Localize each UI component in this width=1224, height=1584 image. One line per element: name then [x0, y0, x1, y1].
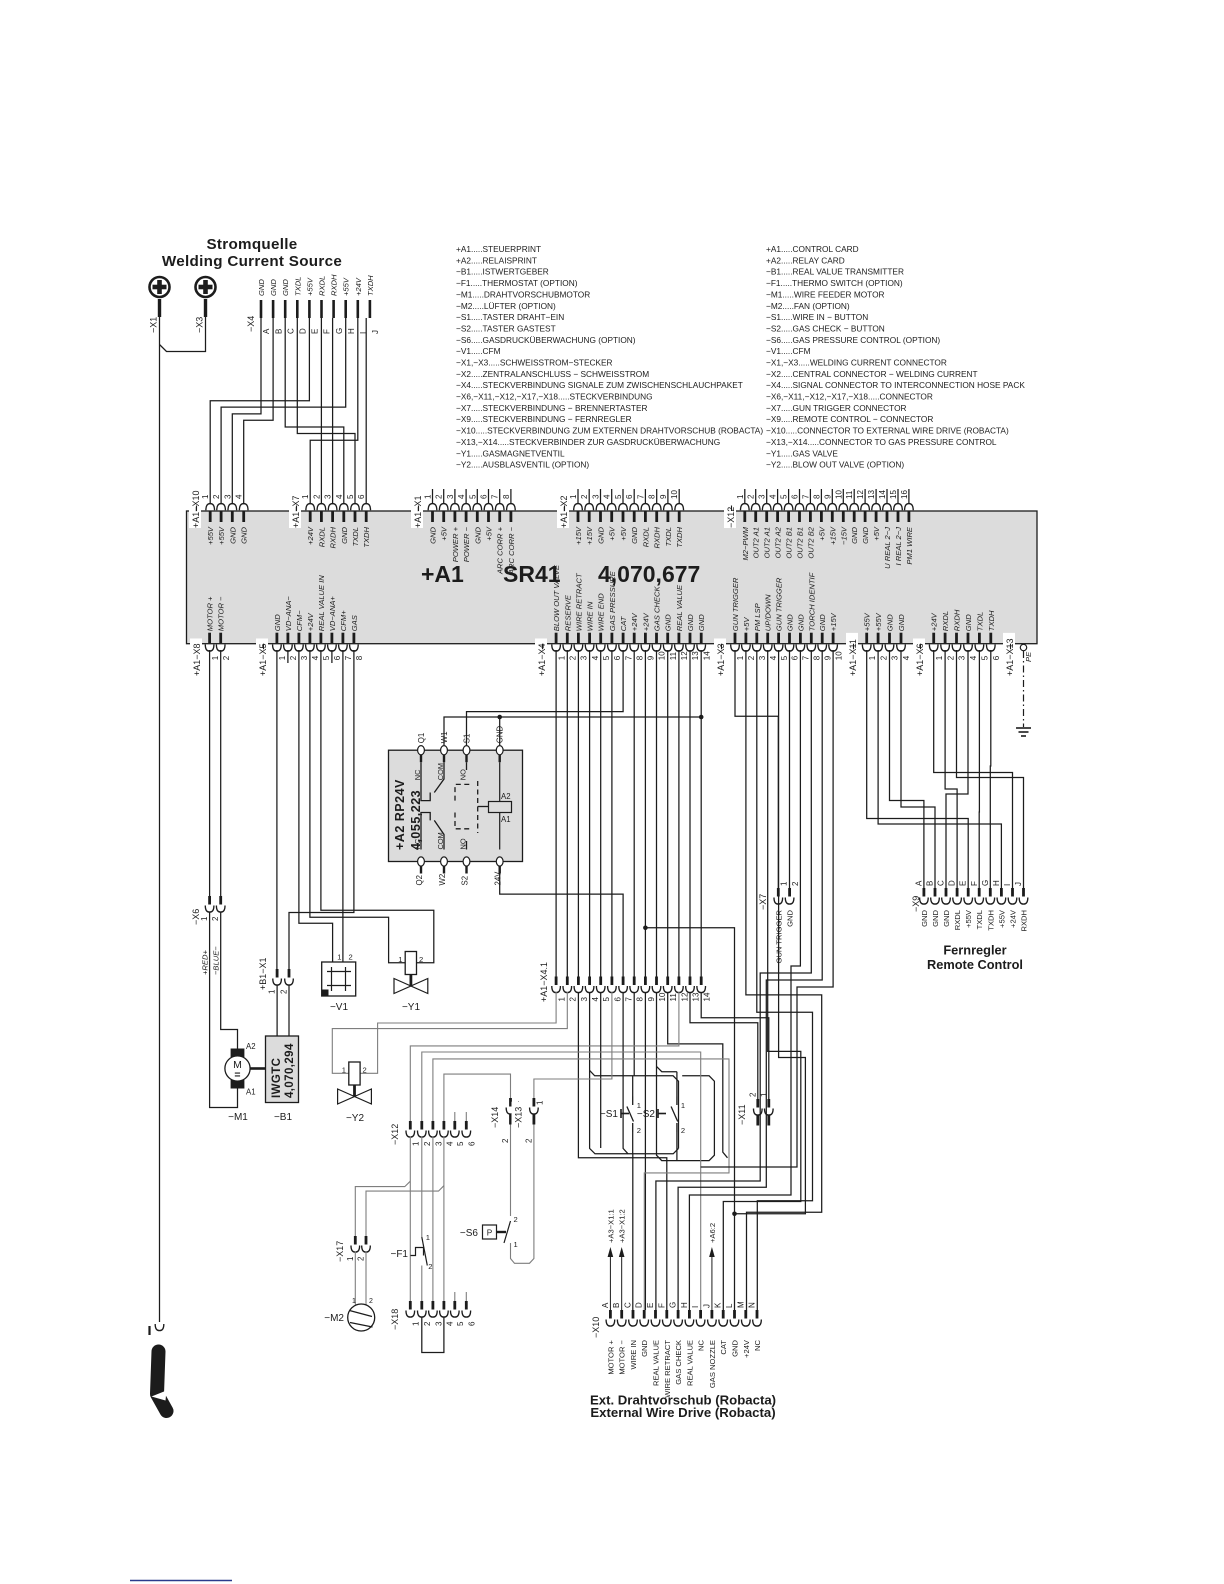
- connector X11 (bottom): [735, 1099, 747, 1125]
- svg-text:GND: GND: [257, 279, 266, 296]
- connector X6 (wire feeder): [189, 904, 201, 925]
- svg-text:2: 2: [637, 1126, 641, 1135]
- svg-text:1: 1: [868, 655, 877, 660]
- svg-text:14: 14: [878, 490, 887, 499]
- svg-text:−Y2.....BLOW OUT VALVE (OPT: −Y2.....BLOW OUT VALVE (OPTION): [766, 460, 904, 470]
- svg-text:14: 14: [703, 992, 712, 1001]
- svg-text:4: 4: [591, 655, 600, 660]
- connector B1-X1: [256, 953, 268, 991]
- X7 pin 1: [777, 888, 780, 897]
- svg-text:−X2.....CENTRAL CONNECTOR −: −X2.....CENTRAL CONNECTOR − WELDING CURR…: [766, 369, 978, 379]
- svg-text:2: 2: [211, 916, 220, 921]
- wire X3-2 wrap to X10-M: [746, 650, 822, 1310]
- svg-text:+A2 RP24V: +A2 RP24V: [393, 779, 407, 850]
- svg-text:3: 3: [223, 494, 232, 499]
- A1-X4.1 pin 1: [555, 977, 558, 986]
- svg-text:NC: NC: [697, 1339, 706, 1350]
- svg-text:−B1: −B1: [274, 1112, 293, 1123]
- A1-X2 pin 3 (GND): [599, 512, 602, 523]
- A1-X2 pin 7 (RXDL): [644, 512, 647, 523]
- X10 pin A (MOTOR +): [609, 1310, 612, 1319]
- X12 pin 8 (+5V): [820, 512, 823, 523]
- svg-text:−X11: −X11: [737, 1104, 747, 1125]
- svg-text:GND: GND: [931, 909, 940, 926]
- A1-X3 pin 8 (TORCH IDENTIF): [810, 633, 813, 644]
- off-page arrows A3-X1: [609, 1253, 611, 1310]
- svg-text:M2−PWM: M2−PWM: [741, 526, 750, 560]
- control card board +A1 SR41: [187, 511, 1038, 644]
- svg-text:RXDL: RXDL: [941, 611, 950, 631]
- A1-X4 pin 6 (GAS PRESSURE): [611, 633, 614, 644]
- A1-X4.1 pin 5: [599, 977, 602, 986]
- svg-text:WIRE IN: WIRE IN: [629, 1340, 638, 1370]
- svg-text:RXDL: RXDL: [953, 910, 962, 930]
- svg-text:C: C: [624, 1302, 633, 1308]
- svg-text:4: 4: [603, 494, 612, 499]
- svg-text:WIRE RETRACT: WIRE RETRACT: [663, 1340, 672, 1398]
- A1-X4.1 pin 11: [666, 977, 669, 986]
- svg-text:3: 3: [758, 494, 767, 499]
- wire X5-3 to CFM V1 pin1: [299, 650, 333, 962]
- svg-text:−V1.....CFM: −V1.....CFM: [766, 346, 811, 356]
- svg-text:Q2: Q2: [415, 875, 424, 885]
- svg-text:F: F: [970, 881, 979, 886]
- A1-X3 pin 10 (+15V): [832, 633, 835, 644]
- remote control crossing wires X11/X6 to X9: [890, 650, 924, 888]
- svg-text:9: 9: [823, 655, 832, 660]
- wire relay S1 to board X4 pin 7: [467, 650, 624, 745]
- wire relay 24V to X4.1 pin 7: [500, 867, 623, 978]
- svg-text:−X1: −X1: [149, 317, 159, 333]
- svg-text:PE: PE: [1024, 651, 1033, 662]
- wire X5-4 to gas valve Y1 pin1: [310, 650, 405, 963]
- svg-text:A: A: [601, 1302, 610, 1308]
- svg-text:CAT: CAT: [719, 1340, 728, 1355]
- svg-text:RXDH: RXDH: [330, 274, 339, 296]
- svg-text:1: 1: [569, 494, 578, 499]
- footer mark: [130, 1580, 232, 1582]
- connector X14: [488, 1102, 500, 1128]
- X9 pin D: [956, 888, 959, 897]
- wire X4.1-10 to S2 rail: [657, 992, 715, 1161]
- X12 pin 5: [453, 1121, 456, 1130]
- svg-text:−S6.....GASDRUCKÜBERWACHUNG (: −S6.....GASDRUCKÜBERWACHUNG (OPTION): [456, 335, 636, 345]
- svg-text:+24V: +24V: [306, 612, 315, 631]
- A1-X2 pin 10 (TXDH): [678, 512, 681, 523]
- svg-text:+5V: +5V: [608, 526, 617, 541]
- svg-text:2: 2: [569, 997, 578, 1002]
- X9 pin E: [967, 888, 970, 897]
- svg-text:1: 1: [426, 1233, 430, 1242]
- svg-text:1: 1: [780, 881, 789, 886]
- wires X4 to A1-X10 / A1-X7: [210, 318, 309, 504]
- svg-text:6: 6: [357, 494, 366, 499]
- svg-text:4: 4: [769, 494, 778, 499]
- svg-text:RXDH: RXDH: [1020, 910, 1029, 932]
- X4 pin H (+55V): [344, 300, 347, 318]
- A1-X4 pin 13 (GND): [689, 633, 692, 644]
- transducer B1 IWGTC 4,070,294: [266, 1036, 299, 1103]
- svg-text:7: 7: [636, 494, 645, 499]
- svg-text:+24V: +24V: [306, 526, 315, 545]
- svg-text:−15V: −15V: [839, 526, 848, 545]
- A1-X6 pin 4 (GND): [967, 633, 970, 644]
- A1-X5 pin 7 (CFM+): [341, 633, 344, 644]
- A1-X1 pin 4 (POWER −): [465, 512, 468, 523]
- svg-text:−X12: −X12: [390, 1124, 400, 1145]
- svg-text:+55V: +55V: [874, 612, 883, 631]
- svg-text:4: 4: [969, 655, 978, 660]
- svg-text:−M2.....LÜFTER (OPTION): −M2.....LÜFTER (OPTION): [456, 301, 556, 311]
- A1-X5 pin 8 (GAS): [352, 633, 355, 644]
- svg-text:GND: GND: [429, 526, 438, 543]
- svg-text:−Y1: −Y1: [402, 1002, 421, 1013]
- svg-text:15: 15: [889, 490, 898, 499]
- svg-text:8: 8: [648, 494, 657, 499]
- svg-text:10: 10: [834, 651, 843, 660]
- svg-text:CFM−: CFM−: [295, 610, 304, 631]
- wire S2 bottom to loop: [676, 1132, 678, 1161]
- svg-text:6: 6: [333, 655, 342, 660]
- svg-text:CAT: CAT: [619, 615, 628, 631]
- svg-text:6: 6: [468, 1141, 477, 1146]
- wire X3-1 to gun trigger connector X7: [735, 650, 778, 888]
- svg-text:GND: GND: [796, 614, 805, 631]
- svg-text:TXDL: TXDL: [293, 277, 302, 296]
- svg-text:7: 7: [801, 494, 810, 499]
- svg-text:G: G: [669, 1302, 678, 1308]
- svg-text:GUN TRIGGER: GUN TRIGGER: [775, 577, 784, 631]
- svg-text:GND: GND: [731, 1339, 740, 1356]
- X18 pin 1: [409, 1301, 412, 1310]
- svg-text:8: 8: [502, 494, 511, 499]
- svg-text:+5V: +5V: [485, 526, 494, 541]
- A1-X5 pin 1 (GND): [275, 633, 278, 644]
- A1-X7 pin 3 (RXDH): [331, 512, 334, 523]
- svg-text:−X17: −X17: [335, 1241, 345, 1262]
- A1-X7 pin 4 (GND): [342, 512, 345, 523]
- svg-text:1: 1: [736, 655, 745, 660]
- X12 pin 3: [431, 1121, 434, 1130]
- X9 pin F: [978, 888, 981, 897]
- svg-text:13: 13: [867, 490, 876, 499]
- X9 pin H: [1000, 888, 1003, 897]
- svg-text:6: 6: [992, 655, 1001, 660]
- X4 pin E (+55V): [308, 300, 311, 318]
- wire X6-2 to motor A2: [221, 912, 238, 1049]
- svg-text:A: A: [262, 328, 271, 334]
- A1-X3 pin 1 (GUN TRIGGER): [734, 633, 737, 644]
- svg-text:F: F: [323, 329, 332, 334]
- svg-text:+5V: +5V: [817, 526, 826, 541]
- svg-text:REAL VALUE: REAL VALUE: [675, 584, 684, 631]
- svg-text:3: 3: [434, 1141, 443, 1146]
- A1-X4.1 pin 8: [633, 977, 636, 986]
- stubs above X18 pins 5,6: [454, 1292, 456, 1301]
- svg-text:=: =: [234, 1069, 240, 1081]
- svg-text:+RED+: +RED+: [201, 950, 210, 975]
- wire X4.1-8 down to S1 rail: [633, 992, 635, 1076]
- wire X3 to X1 joint: [160, 317, 206, 352]
- wire X3-8 to X10-E: [656, 650, 811, 1310]
- relay pin GND (top): [496, 746, 503, 755]
- svg-text:1: 1: [268, 989, 277, 994]
- svg-text:POWER −: POWER −: [462, 526, 471, 562]
- svg-text:−V1.....CFM: −V1.....CFM: [456, 346, 501, 356]
- svg-text:−X13,−X14.....STECKVERBINDER: −X13,−X14.....STECKVERBINDER ZUR GASDRUC…: [456, 437, 720, 447]
- svg-text:6: 6: [468, 1321, 477, 1326]
- A1-X11 pin 3 (GND): [888, 633, 891, 644]
- connector A1-X5: [256, 639, 268, 677]
- svg-text:−X1,−X3.....SCHWEISSTROM−STECK: −X1,−X3.....SCHWEISSTROM−STECKER: [456, 358, 613, 368]
- svg-text:TORCH IDENTIF: TORCH IDENTIF: [807, 572, 816, 631]
- svg-text:3: 3: [324, 494, 333, 499]
- X18 pin 4: [442, 1301, 445, 1310]
- svg-text:+A1.....STEUERPRINT: +A1.....STEUERPRINT: [456, 244, 541, 254]
- svg-text:+55V: +55V: [342, 277, 351, 296]
- svg-text:13: 13: [691, 992, 700, 1001]
- svg-text:+5V: +5V: [440, 526, 449, 541]
- svg-text:3: 3: [300, 655, 309, 660]
- svg-text:D: D: [299, 328, 308, 334]
- wire S1 top horizontal: [632, 1076, 634, 1097]
- relay pin 24V (bottom): [496, 857, 503, 866]
- connector X12 (bottom area): [388, 1119, 400, 1145]
- X12 pin 2: [420, 1121, 423, 1130]
- svg-text:4: 4: [445, 1141, 454, 1146]
- svg-text:+55V: +55V: [305, 277, 314, 296]
- board edge brackets: [196, 506, 198, 512]
- A1-X10 pin 1 (+55V): [209, 512, 212, 523]
- svg-text:3: 3: [958, 655, 967, 660]
- svg-text:−S6.....GAS PRESSURE CONTROL: −S6.....GAS PRESSURE CONTROL (OPTION): [766, 335, 940, 345]
- connector A1-X11: [846, 633, 858, 676]
- svg-text:TXDH: TXDH: [362, 526, 371, 547]
- wire X3-4 to X10-K: [723, 650, 801, 1310]
- X4 pin A (GND): [260, 300, 263, 318]
- svg-text:GND: GND: [886, 614, 895, 631]
- svg-text:B: B: [926, 881, 935, 886]
- A1-X4.1 pin 6: [611, 977, 614, 986]
- wire X3-6 to X7 pin2: [789, 650, 791, 888]
- svg-text:7: 7: [802, 655, 811, 660]
- svg-text:10: 10: [658, 651, 667, 660]
- svg-text:4: 4: [235, 494, 244, 499]
- svg-text:GAS NOZZLE: GAS NOZZLE: [708, 1340, 717, 1388]
- svg-text:MOTOR −: MOTOR −: [217, 596, 226, 631]
- A1-X4.1 pin 2: [566, 977, 569, 986]
- svg-text:8: 8: [813, 655, 822, 660]
- wire X12 pin2 sense line to X10-I: [422, 1052, 701, 1310]
- A1-X5 pin 5 (REAL VALUE IN): [319, 633, 322, 644]
- svg-text:6: 6: [791, 655, 800, 660]
- svg-text:−M2: −M2: [324, 1313, 344, 1324]
- svg-text:+5V: +5V: [742, 617, 751, 632]
- stub X5-2: [287, 650, 289, 663]
- svg-text:2: 2: [212, 494, 221, 499]
- relay pin S2 (bottom): [463, 857, 470, 866]
- svg-text:−X10.....STECKVERBINDUNG ZUM: −X10.....STECKVERBINDUNG ZUM EXTERNEN DR…: [456, 426, 763, 436]
- A1-X4 pin 4 (WIRE IN): [588, 633, 591, 644]
- svg-text:−V1: −V1: [330, 1002, 349, 1013]
- svg-text:8: 8: [355, 655, 364, 660]
- svg-text:7: 7: [491, 494, 500, 499]
- wire X4.1-1 to Y2 pin2: [360, 992, 556, 1073]
- svg-text:12: 12: [856, 490, 865, 499]
- wire X1 to torch socket: [159, 317, 161, 1322]
- wire X4.1-11 GND to S2 loop right: [668, 992, 728, 1158]
- svg-text:GND: GND: [240, 526, 249, 543]
- svg-text:GAS CHECK: GAS CHECK: [653, 586, 662, 632]
- svg-text:+A2.....RELAISPRINT: +A2.....RELAISPRINT: [456, 255, 537, 265]
- X12 pin 10 (−15V): [842, 512, 845, 523]
- A1-X4.1 pin 9: [644, 977, 647, 986]
- svg-text:3: 3: [434, 1321, 443, 1326]
- motor M1 (wire feeder motor): [231, 1049, 245, 1058]
- svg-text:GAS CHECK: GAS CHECK: [674, 1340, 683, 1385]
- svg-text:External Wire Drive (Robacta): External Wire Drive (Robacta): [590, 1405, 775, 1420]
- A1-X2 pin 6 (GND): [633, 512, 636, 523]
- svg-text:GND: GND: [273, 614, 282, 631]
- svg-text:6: 6: [791, 494, 800, 499]
- X12 pin 1 (M2−PWM): [743, 512, 746, 523]
- relay pin W2 (bottom): [441, 857, 448, 866]
- A1-X1 pin 3 (POWER +): [453, 512, 456, 523]
- svg-text:3: 3: [891, 655, 900, 660]
- A1-X11 pin 4 (GND): [900, 633, 903, 644]
- X10 pin E (REAL VALUE): [654, 1310, 657, 1319]
- svg-text:+24V: +24V: [1009, 909, 1018, 928]
- svg-text:2: 2: [747, 494, 756, 499]
- relay pin Q1 (top): [418, 746, 425, 755]
- svg-text:OUT2 A1: OUT2 A1: [763, 527, 772, 558]
- welding current connector X1: [150, 277, 170, 297]
- svg-text:S2: S2: [461, 876, 470, 886]
- torch connector socket: [155, 1324, 164, 1331]
- wire X3-3 wrap to X10-N: [757, 650, 813, 1310]
- wire X12-3 to X10-D GND: [433, 1059, 729, 1310]
- svg-text:OUT2 B1: OUT2 B1: [785, 527, 794, 559]
- svg-text:5: 5: [602, 655, 611, 660]
- svg-text:1: 1: [424, 494, 433, 499]
- X12 pin 5 (OUT2 B1): [787, 512, 790, 523]
- svg-text:U REAL 2−J: U REAL 2−J: [883, 527, 892, 569]
- A1-X10 pin 3 (GND): [231, 512, 234, 523]
- svg-text:RXDH: RXDH: [953, 609, 962, 631]
- A1-X4 pin 5 (WIRE END): [599, 633, 602, 644]
- A1-X3 pin 9 (GND): [821, 633, 824, 644]
- svg-text:+24V: +24V: [354, 277, 363, 296]
- svg-text:−X6,−X11,−X12,−X17,−X18.....CO: −X6,−X11,−X12,−X17,−X18.....CONNECTOR: [766, 392, 933, 402]
- A1-X7 pin 1 (+24V): [309, 512, 312, 523]
- svg-text:GND: GND: [697, 614, 706, 631]
- svg-text:8: 8: [812, 494, 821, 499]
- X12 pin 1: [409, 1121, 412, 1130]
- A1-X6 pin 6 (TXDH): [989, 633, 992, 644]
- svg-text:+A1: +A1: [421, 561, 464, 587]
- svg-text:13: 13: [691, 651, 700, 660]
- svg-text:9: 9: [647, 655, 656, 660]
- svg-text:WIRE RETRACT: WIRE RETRACT: [574, 572, 583, 631]
- svg-text:−X4.....SIGNAL CONNECTOR TO: −X4.....SIGNAL CONNECTOR TO INTERCONNECT…: [766, 380, 1025, 390]
- svg-text:5: 5: [346, 494, 355, 499]
- svg-text:5: 5: [614, 494, 623, 499]
- svg-text:10: 10: [658, 992, 667, 1001]
- svg-text:TXDH: TXDH: [366, 275, 375, 296]
- X10 pin L (GND): [733, 1310, 736, 1319]
- X12 pin 16 (PM1 WIRE): [908, 512, 911, 523]
- welding torch body: [157, 1352, 167, 1412]
- wire relay W1 to X4 pin 14 (GND rail): [444, 717, 701, 745]
- svg-text:ARC CORR +: ARC CORR +: [496, 526, 505, 575]
- svg-text:TXDL: TXDL: [975, 910, 984, 929]
- svg-text:2: 2: [363, 1066, 367, 1075]
- svg-text:REAL VALUE IN: REAL VALUE IN: [317, 575, 326, 632]
- svg-text:+15V: +15V: [829, 612, 838, 631]
- A1-X7 pin 6 (TXDH): [365, 512, 368, 523]
- svg-text:−S2.....GAS CHECK − BUTTON: −S2.....GAS CHECK − BUTTON: [766, 323, 885, 333]
- svg-text:GND: GND: [664, 614, 673, 631]
- wire X3-7 to X10-H: [689, 650, 800, 1310]
- svg-text:1: 1: [211, 655, 220, 660]
- A1-X3 pin 3 (PM LSP): [755, 633, 758, 644]
- svg-text:GND: GND: [640, 1339, 649, 1356]
- svg-text:−S6: −S6: [460, 1228, 479, 1239]
- connector X9 remote control: [909, 891, 921, 912]
- svg-text:−X7.....GUN TRIGGER CONNECTO: −X7.....GUN TRIGGER CONNECTOR: [766, 403, 907, 413]
- relay pin Q2 (bottom): [418, 857, 425, 866]
- svg-text:1: 1: [514, 1240, 518, 1249]
- X9 pin G: [989, 888, 992, 897]
- svg-text:2: 2: [946, 655, 955, 660]
- X10 pin K (CAT): [722, 1310, 725, 1319]
- svg-text:−M1: −M1: [228, 1112, 248, 1123]
- wires board X4 down to X4.1: [555, 650, 557, 977]
- A1-X4.1 pin 13: [689, 977, 692, 986]
- svg-text:1: 1: [200, 916, 209, 921]
- svg-text:RXDH: RXDH: [329, 526, 338, 548]
- relay contact lower: [421, 813, 430, 850]
- svg-text:MOTOR +: MOTOR +: [606, 1339, 615, 1374]
- svg-text:A2: A2: [501, 792, 511, 801]
- wire relay GND pin up: [499, 717, 501, 745]
- svg-text:E: E: [959, 881, 968, 886]
- svg-text:4: 4: [769, 655, 778, 660]
- A1-X11 pin 2 (+55V): [877, 633, 880, 644]
- svg-text:+B1−X1: +B1−X1: [258, 957, 268, 990]
- svg-text:A1: A1: [246, 1088, 256, 1097]
- svg-text:5: 5: [602, 997, 611, 1002]
- svg-text:−M1.....DRAHTVORSCHUBMOTOR: −M1.....DRAHTVORSCHUBMOTOR: [456, 289, 590, 299]
- svg-text:+24V: +24V: [630, 612, 639, 631]
- A1-X4 pin 11 (GND): [666, 633, 669, 644]
- svg-text:TXDL: TXDL: [975, 612, 984, 631]
- svg-text:+A1.....CONTROL CARD: +A1.....CONTROL CARD: [766, 244, 859, 254]
- A1-X4.1 pin 3: [577, 977, 580, 986]
- svg-text:GAS PRESSURE: GAS PRESSURE: [608, 570, 617, 631]
- svg-text:GND: GND: [269, 279, 278, 296]
- svg-text:11: 11: [669, 651, 678, 660]
- A1-X2 pin 2 (+15V): [588, 512, 591, 523]
- A1-X3 pin 2 (+5V): [745, 633, 748, 644]
- X12 pin 11 (GND): [853, 512, 856, 523]
- svg-text:+A1−X8: +A1−X8: [192, 643, 202, 676]
- svg-text:POWER +: POWER +: [451, 526, 460, 562]
- svg-text:9: 9: [659, 494, 668, 499]
- svg-text:+55V: +55V: [964, 909, 973, 928]
- A1-X4 pin 8 (+24V): [633, 633, 636, 644]
- svg-text:4: 4: [335, 494, 344, 499]
